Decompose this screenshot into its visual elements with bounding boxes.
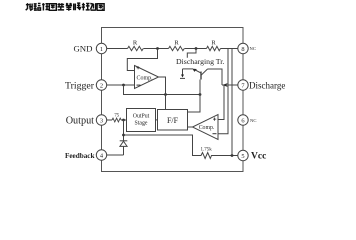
diode D1: [120, 141, 128, 155]
wire rail down to pin5 junction: [231, 49, 233, 156]
resistor R3: [207, 46, 221, 50]
wire pin3 to small resistor: [102, 119, 113, 121]
svg-text:1: 1: [100, 46, 103, 53]
svg-text:GND: GND: [73, 44, 92, 54]
svg-text:NC: NC: [250, 46, 256, 51]
svg-text:Vcc: Vcc: [251, 152, 266, 162]
block F/F flip-flop: [158, 110, 188, 131]
node junction on trigger wire: [122, 84, 125, 87]
wire resistor to pin5: [213, 155, 244, 157]
resistor R2: [169, 46, 185, 50]
title 功能框图与管脚排列图: (fake CJK strokes): [26, 3, 104, 11]
svg-text:5: 5: [241, 153, 244, 160]
svg-text:Stage: Stage: [135, 121, 148, 127]
svg-text:R: R: [211, 40, 216, 47]
node junction diode top: [122, 134, 125, 137]
svg-text:8: 8: [241, 46, 244, 53]
transistor emitter arrowhead: [193, 69, 197, 72]
svg-text:R: R: [133, 40, 138, 47]
pin 2: [96, 80, 106, 90]
svg-text:Discharge: Discharge: [249, 80, 285, 90]
svg-text:3: 3: [100, 117, 103, 124]
arrowhead on pin7 wire: [222, 83, 228, 87]
wire transistor base down to F/F: [188, 80, 201, 113]
resistor 1.75k: [200, 153, 213, 159]
node junction on pin5 wire: [231, 154, 234, 157]
wire rail down to Comp2 - input: [218, 49, 228, 134]
svg-text:Comp.: Comp.: [137, 76, 154, 82]
ground arrow symbol at emitter: [180, 69, 185, 79]
wire Comp1 output to F/F: [159, 77, 166, 110]
wire long feedback line to 1.75k resistor: [124, 135, 200, 156]
pin 7: [238, 80, 248, 90]
svg-text:6: 6: [241, 117, 244, 124]
pin 1: [96, 43, 106, 53]
svg-text:Discharging Tr.: Discharging Tr.: [176, 57, 224, 66]
pin 5: [238, 150, 248, 160]
svg-text:F/F: F/F: [167, 116, 179, 125]
svg-text:Output: Output: [66, 115, 94, 126]
wire bracket from node after R2 down to transistor emitter wire: [187, 49, 196, 58]
wire emitter to arrow symbol: [183, 68, 194, 70]
pin 6: [238, 115, 248, 125]
wire pin1 to R1: [102, 48, 128, 50]
wire pin4 Feedback to diode: [102, 154, 124, 156]
node junction at base line: [199, 93, 202, 96]
node junction after R2: [195, 47, 198, 50]
wire pin7 Discharge with arrowhead: [222, 84, 243, 86]
wire collector to pin7 vertical: [208, 69, 223, 85]
resistor 75 small: [112, 118, 121, 122]
node junction comp1 output crossing: [164, 93, 167, 96]
node junction on pin3 wire: [122, 119, 125, 122]
svg-text:R: R: [174, 40, 179, 47]
op-amp comparator Comp2: [193, 115, 219, 140]
resistor R1: [128, 46, 144, 50]
svg-text:Feedback: Feedback: [65, 152, 95, 160]
wire resistor to OutPut Stage: [121, 119, 127, 121]
node junction after R1: [156, 47, 159, 50]
svg-text:NC: NC: [250, 118, 256, 123]
pin 8: [238, 43, 248, 53]
svg-text:2: 2: [100, 82, 103, 89]
svg-text:75: 75: [114, 114, 119, 119]
svg-text:Trigger: Trigger: [65, 80, 95, 91]
block OutPut Stage: [127, 109, 156, 132]
IC outline box: [102, 28, 244, 172]
wire bracket from node after R1 down to comparator1 + input: [127, 49, 157, 71]
wire trigger branch down and right to transistor base line: [124, 85, 201, 95]
wire R1 to R2: [144, 48, 169, 50]
svg-text:OutPut: OutPut: [133, 114, 150, 120]
wire OutPut Stage to F/F: [156, 119, 158, 121]
wire R3 to pin8: [221, 48, 244, 50]
wire Comp2 output to F/F: [188, 126, 193, 128]
wire junction down to diode: [123, 120, 125, 141]
transistor Q1 discharging: [194, 69, 208, 80]
wire R2 to R3: [185, 48, 207, 50]
pin 4: [96, 150, 106, 160]
svg-text:1.75k: 1.75k: [200, 148, 212, 153]
pin 3: [96, 115, 106, 125]
op-amp comparator Comp1: [135, 66, 159, 89]
wire pin2 Trigger to Comp1 - input: [102, 84, 135, 86]
svg-text:Comp.: Comp.: [199, 125, 215, 131]
wire pin7 junction down to Comp2 + input: [218, 85, 224, 120]
